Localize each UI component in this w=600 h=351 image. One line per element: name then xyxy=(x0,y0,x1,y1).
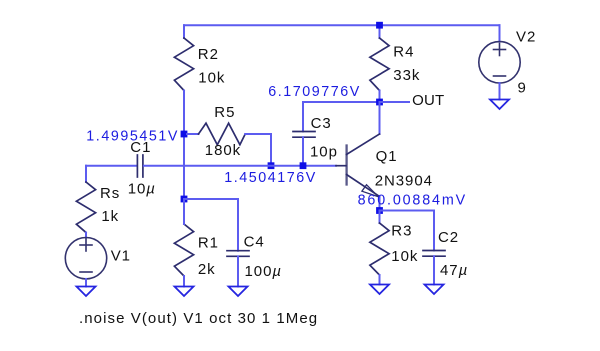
voltage source V1 xyxy=(65,238,106,279)
junction node A / R1 / C4 xyxy=(181,196,188,203)
junction C3/base line xyxy=(300,162,307,169)
wire: Rs to V1 xyxy=(85,233,87,238)
wire: R5 right lead xyxy=(245,134,271,166)
resistor R4 xyxy=(370,38,389,91)
ground under R1 xyxy=(175,287,194,297)
wire: R3 top lead xyxy=(379,211,381,224)
junction R5/base line xyxy=(268,162,275,169)
wire: C3 top wire to OUT node xyxy=(303,102,380,132)
resistor R3 xyxy=(370,223,389,275)
svg-text:1.4504176V: 1.4504176V xyxy=(224,170,317,186)
wire: C2 bottom lead xyxy=(433,256,435,284)
wire: node A to C4 xyxy=(184,199,238,251)
svg-text:C2: C2 xyxy=(438,229,459,246)
transistor Q1 xyxy=(336,134,380,197)
svg-text:V1: V1 xyxy=(111,247,131,264)
wire: R2 top lead xyxy=(183,25,185,38)
wire: top rail xyxy=(184,24,500,26)
wire: OUT stub xyxy=(380,101,410,103)
wire: V1 bottom lead xyxy=(85,279,87,287)
wire: rail to R4 top xyxy=(379,25,381,38)
node A junction (1.4995451V) xyxy=(181,131,188,138)
ground under V2 xyxy=(490,100,509,110)
junction emitter node xyxy=(376,207,383,214)
wire: input line from Rs to C1 xyxy=(86,165,136,167)
svg-text:R3: R3 xyxy=(391,223,412,240)
voltage source V2 xyxy=(479,42,520,83)
svg-text:.noise V(out) V1 oct 30 1 1Meg: .noise V(out) V1 oct 30 1 1Meg xyxy=(79,310,318,327)
svg-text:33k: 33k xyxy=(393,67,420,84)
wire: emitter to C2 xyxy=(380,211,435,251)
capacitor C1 xyxy=(137,155,143,177)
wire: emitter lead xyxy=(379,197,381,211)
ground under C2 xyxy=(425,285,444,295)
junction OUT node xyxy=(376,99,383,106)
svg-text:100µ: 100µ xyxy=(245,263,282,280)
svg-text:180k: 180k xyxy=(205,142,241,159)
wire: R1 top lead xyxy=(183,199,185,224)
svg-text:C1: C1 xyxy=(130,139,151,156)
svg-text:C4: C4 xyxy=(244,234,265,251)
svg-text:C3: C3 xyxy=(311,115,332,132)
wire: R4 bottom lead xyxy=(379,91,381,103)
wire: C3 bottom lead xyxy=(302,137,304,166)
wire: R3 bottom lead xyxy=(379,275,381,285)
svg-text:R4: R4 xyxy=(393,44,414,61)
capacitor C3 xyxy=(293,132,315,138)
resistor R2 xyxy=(174,38,193,91)
svg-text:6.1709776V: 6.1709776V xyxy=(268,84,361,100)
wire: R1 bottom lead xyxy=(183,276,185,287)
svg-text:OUT: OUT xyxy=(412,92,444,109)
wire: C4 bottom lead xyxy=(237,256,239,286)
svg-text:R2: R2 xyxy=(198,46,219,63)
ground under R3 xyxy=(370,285,389,295)
svg-text:Rs: Rs xyxy=(100,185,120,202)
svg-text:1k: 1k xyxy=(101,208,119,225)
svg-text:R5: R5 xyxy=(214,104,235,121)
resistor R1 xyxy=(174,224,193,276)
wire: V2 bottom lead xyxy=(499,83,501,100)
capacitor C4 xyxy=(227,251,249,257)
ground under C4 xyxy=(229,287,248,297)
wire: collector lead xyxy=(379,102,381,134)
svg-text:2k: 2k xyxy=(198,261,216,278)
svg-text:10k: 10k xyxy=(198,70,225,87)
svg-text:10k: 10k xyxy=(391,248,418,265)
resistor R5 xyxy=(199,123,246,145)
wire: Rs top lead xyxy=(85,166,87,182)
wire: V2 top lead xyxy=(499,25,501,41)
svg-text:Q1: Q1 xyxy=(376,148,398,165)
wire: base line C1 to Q1 base xyxy=(144,165,336,167)
capacitor C2 xyxy=(423,251,445,257)
wire: R5 left lead xyxy=(187,133,199,135)
svg-text:2N3904: 2N3904 xyxy=(375,173,433,190)
junction rail/R4 xyxy=(376,22,383,29)
svg-text:10p: 10p xyxy=(310,144,338,161)
svg-text:9: 9 xyxy=(518,80,527,97)
svg-text:R1: R1 xyxy=(198,235,219,252)
wire: R2 bottom down to node A and R1 xyxy=(183,91,185,200)
ground under V1 xyxy=(77,287,96,297)
resistor Rs xyxy=(76,182,95,233)
svg-text:47µ: 47µ xyxy=(440,262,468,279)
svg-text:10µ: 10µ xyxy=(128,181,156,198)
svg-text:V2: V2 xyxy=(516,29,536,46)
svg-text:860.00884mV: 860.00884mV xyxy=(358,193,467,209)
